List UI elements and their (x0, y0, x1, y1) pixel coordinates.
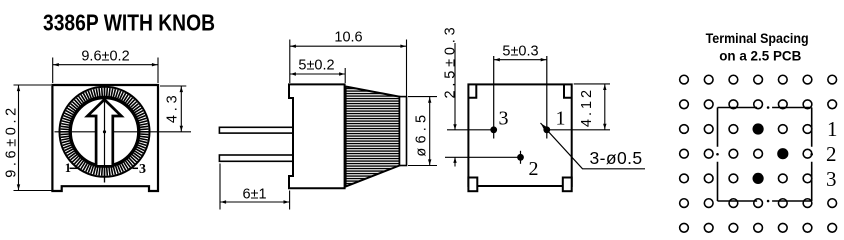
leader 3-ø0.5 (541, 123, 646, 169)
corner chamfer top-right (564, 84, 572, 97)
pin 1 pad (547, 129, 610, 131)
dimension 6±1 (side bottom) (220, 164, 290, 210)
bottom view body square (468, 84, 571, 186)
svg-text:3386P WITH KNOB: 3386P WITH KNOB (43, 10, 215, 36)
dimension 9.6±0.2 (front top) (53, 58, 158, 84)
dimension 10.6 (side top) (290, 40, 407, 97)
PCB hole grid (680, 75, 837, 232)
terminal hole 2 (filled) (777, 148, 788, 159)
svg-text:ø6.5: ø6.5 (414, 111, 430, 157)
knob vertical center line (104, 88, 106, 183)
svg-text:2.5±0.3: 2.5±0.3 (443, 24, 459, 99)
svg-text:9.6±0.2: 9.6±0.2 (81, 48, 129, 64)
svg-text:5±0.2: 5±0.2 (298, 57, 334, 73)
svg-text:2: 2 (826, 142, 837, 166)
pin 3 pad (447, 129, 494, 131)
dimension ø6.5 (knob face) (408, 97, 437, 166)
front view body outline (52, 85, 158, 191)
dimension 4.12 (bottom view right) (574, 84, 610, 130)
svg-text:10.6: 10.6 (334, 30, 362, 46)
foot bottom-left (468, 178, 477, 192)
body outline on grid (718, 108, 812, 202)
side view body outline (289, 84, 345, 188)
svg-text:3: 3 (826, 167, 837, 191)
knob inner circle (70, 98, 139, 167)
svg-text:4.3: 4.3 (165, 92, 181, 124)
side view lead 2 (219, 155, 293, 161)
dimension 5±0.2 (side) (290, 68, 345, 83)
svg-text:5±0.3: 5±0.3 (502, 44, 538, 60)
svg-text:9.6±0.2: 9.6±0.2 (4, 104, 20, 177)
svg-text:Terminal Spacing: Terminal Spacing (706, 30, 809, 46)
pin 2 pad (445, 156, 521, 158)
svg-text:1: 1 (827, 117, 838, 141)
dimension 9.6±0.2 (front left) (14, 85, 53, 191)
knob center dot (103, 130, 106, 133)
foot bottom-right (563, 178, 572, 192)
svg-text:3-ø0.5: 3-ø0.5 (590, 148, 643, 168)
knob horizontal center line (55, 131, 192, 133)
dimension 5±0.3 (bottom view top) (494, 59, 547, 61)
corner chamfer top-left (468, 84, 476, 97)
svg-text:3: 3 (139, 162, 146, 177)
knob knurl ticks (61, 88, 149, 176)
rotor arrow indicator (87, 100, 121, 167)
side view lead 1 (219, 127, 293, 133)
svg-text:6±1: 6±1 (242, 187, 266, 203)
svg-text:1: 1 (556, 108, 566, 130)
terminal hole 1 (filled) (753, 123, 764, 134)
svg-text:3: 3 (499, 108, 509, 130)
svg-text:4.12: 4.12 (579, 87, 595, 127)
svg-text:on a 2.5 PCB: on a 2.5 PCB (719, 48, 801, 63)
knob face plate (400, 97, 407, 166)
svg-text:2: 2 (529, 158, 539, 180)
dimension 4.3 (front right) (160, 86, 186, 132)
knob outer circle (60, 87, 150, 177)
dimension 2.5±0.3 (pin row spacing) (454, 43, 456, 167)
terminal hole 3 (filled) (753, 173, 764, 184)
